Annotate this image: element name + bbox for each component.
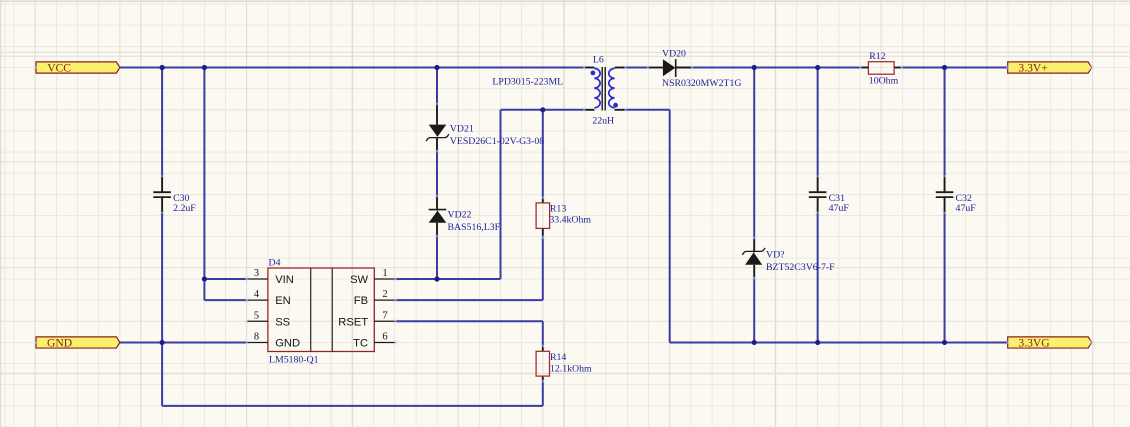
svg-text:8: 8 xyxy=(254,331,259,342)
svg-text:D4: D4 xyxy=(269,257,281,268)
svg-text:TC: TC xyxy=(353,337,368,349)
svg-text:VD22: VD22 xyxy=(448,210,472,221)
svg-text:GND: GND xyxy=(47,336,72,349)
svg-text:3.3VG: 3.3VG xyxy=(1018,336,1050,349)
svg-text:3.3V+: 3.3V+ xyxy=(1018,61,1047,74)
svg-text:33.4kOhm: 33.4kOhm xyxy=(549,215,591,226)
svg-text:1: 1 xyxy=(382,268,387,279)
svg-text:6: 6 xyxy=(382,331,387,342)
svg-text:22uH: 22uH xyxy=(592,115,614,126)
svg-text:R13: R13 xyxy=(550,204,566,215)
svg-text:R14: R14 xyxy=(550,352,566,363)
svg-text:VIN: VIN xyxy=(275,274,294,286)
svg-text:3: 3 xyxy=(254,268,259,279)
svg-text:47uF: 47uF xyxy=(829,203,850,214)
svg-text:VCC: VCC xyxy=(47,61,71,74)
svg-text:5: 5 xyxy=(254,310,259,321)
svg-text:VESD26C1-02V-G3-08: VESD26C1-02V-G3-08 xyxy=(450,136,544,147)
svg-text:10Ohm: 10Ohm xyxy=(869,76,899,87)
svg-text:VD?: VD? xyxy=(766,250,785,261)
svg-text:NSR0320MW2T1G: NSR0320MW2T1G xyxy=(662,78,741,89)
svg-text:L6: L6 xyxy=(593,55,604,66)
svg-text:12.1kOhm: 12.1kOhm xyxy=(550,364,592,375)
svg-text:C32: C32 xyxy=(956,193,972,204)
svg-text:FB: FB xyxy=(354,295,368,307)
svg-text:C30: C30 xyxy=(173,193,189,204)
svg-text:2.2uF: 2.2uF xyxy=(173,203,196,214)
svg-text:SS: SS xyxy=(275,316,290,328)
svg-text:GND: GND xyxy=(275,337,300,349)
svg-text:VD20: VD20 xyxy=(662,49,686,60)
svg-text:R12: R12 xyxy=(869,51,885,62)
svg-text:7: 7 xyxy=(382,310,387,321)
svg-text:LM5180-Q1: LM5180-Q1 xyxy=(269,355,319,366)
svg-text:C31: C31 xyxy=(829,193,845,204)
svg-text:SW: SW xyxy=(350,274,368,286)
svg-text:EN: EN xyxy=(275,295,291,307)
svg-text:RSET: RSET xyxy=(338,316,368,328)
svg-text:47uF: 47uF xyxy=(956,203,977,214)
svg-text:LPD3015-223ML: LPD3015-223ML xyxy=(492,77,563,88)
svg-text:BZT52C3V6-7-F: BZT52C3V6-7-F xyxy=(766,262,835,273)
svg-text:VD21: VD21 xyxy=(450,124,474,135)
svg-text:4: 4 xyxy=(254,289,260,300)
svg-text:BAS516,L3F: BAS516,L3F xyxy=(448,222,501,233)
svg-text:2: 2 xyxy=(382,289,387,300)
